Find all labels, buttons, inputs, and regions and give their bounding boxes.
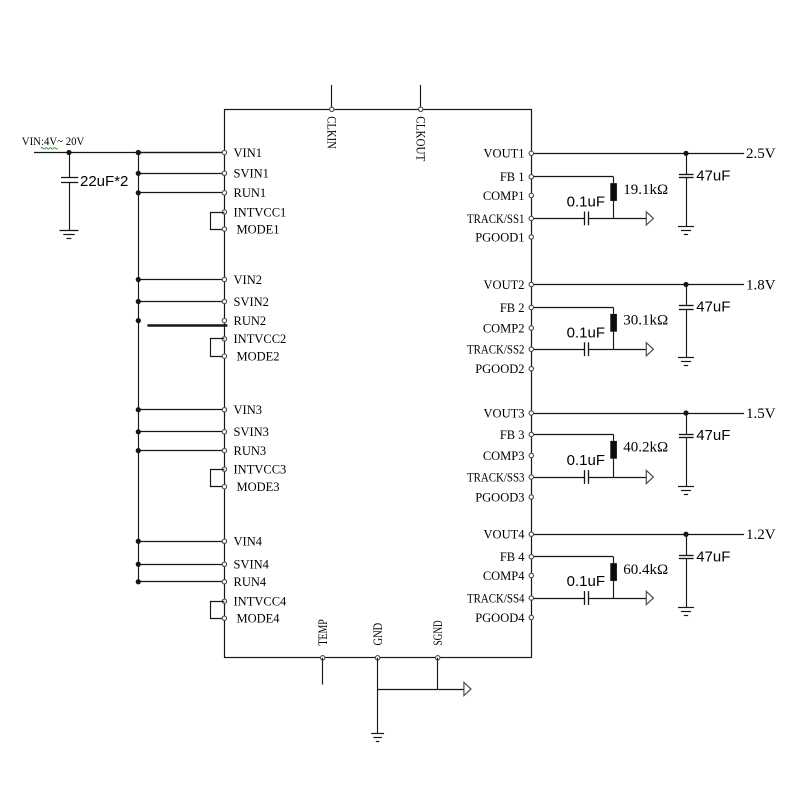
svg-text:PGOOD3: PGOOD3 [475,490,524,504]
svg-text:INTVCC1: INTVCC1 [234,205,287,219]
svg-text:47uF: 47uF [696,168,730,185]
svg-text:INTVCC2: INTVCC2 [234,332,287,346]
svg-text:SVIN1: SVIN1 [234,167,269,181]
svg-text:1.2V: 1.2V [746,527,776,543]
svg-text:47uF: 47uF [696,548,730,565]
svg-text:MODE2: MODE2 [237,350,280,364]
svg-text:VIN4: VIN4 [234,535,263,549]
svg-text:TEMP: TEMP [316,619,330,645]
svg-text:60.4kΩ: 60.4kΩ [623,562,668,578]
svg-text:22uF*2: 22uF*2 [80,173,128,190]
svg-text:SVIN4: SVIN4 [234,558,270,572]
svg-text:0.1uF: 0.1uF [567,193,605,210]
svg-text:COMP4: COMP4 [483,569,525,583]
svg-text:1.5V: 1.5V [746,406,776,422]
svg-text:MODE4: MODE4 [237,612,281,626]
svg-text:GND: GND [371,623,385,646]
svg-text:CLKOUT: CLKOUT [414,116,428,161]
svg-text:VOUT1: VOUT1 [484,147,525,161]
svg-text:0.1uF: 0.1uF [567,452,605,469]
svg-text:SVIN2: SVIN2 [234,295,269,309]
svg-text:1.8V: 1.8V [746,277,776,293]
svg-text:VOUT2: VOUT2 [484,278,525,292]
svg-text:19.1kΩ: 19.1kΩ [623,182,668,198]
svg-text:CLKIN: CLKIN [325,116,339,149]
svg-text:VIN1: VIN1 [234,146,262,160]
svg-text:SVIN3: SVIN3 [234,425,269,439]
svg-text:FB 3: FB 3 [500,428,525,442]
svg-text:TRACK/SS3: TRACK/SS3 [467,470,525,484]
svg-text:PGOOD1: PGOOD1 [475,230,524,244]
svg-text:INTVCC4: INTVCC4 [234,595,288,609]
svg-text:0.1uF: 0.1uF [567,324,605,341]
svg-text:MODE1: MODE1 [237,223,280,237]
svg-text:RUN1: RUN1 [234,186,267,200]
svg-text:TRACK/SS1: TRACK/SS1 [467,212,525,226]
svg-text:FB 2: FB 2 [500,301,525,315]
svg-text:PGOOD2: PGOOD2 [475,362,524,376]
svg-text:VIN:4V~ 20V: VIN:4V~ 20V [22,134,85,148]
svg-text:TRACK/SS2: TRACK/SS2 [467,343,525,357]
svg-text:RUN3: RUN3 [234,444,267,458]
svg-text:47uF: 47uF [696,299,730,316]
svg-text:SGND: SGND [431,620,445,645]
svg-text:PGOOD4: PGOOD4 [475,611,525,625]
svg-text:2.5V: 2.5V [746,146,776,162]
svg-text:RUN2: RUN2 [234,314,267,328]
svg-text:FB 4: FB 4 [500,550,525,564]
svg-text:VIN2: VIN2 [234,273,262,287]
svg-text:MODE3: MODE3 [237,480,280,494]
svg-text:INTVCC3: INTVCC3 [234,463,287,477]
svg-text:VOUT4: VOUT4 [484,528,526,542]
svg-text:VOUT3: VOUT3 [484,406,525,420]
svg-text:40.2kΩ: 40.2kΩ [623,440,668,456]
svg-text:TRACK/SS4: TRACK/SS4 [467,591,525,605]
svg-text:RUN4: RUN4 [234,575,267,589]
svg-text:COMP1: COMP1 [483,189,525,203]
svg-text:FB 1: FB 1 [500,170,525,184]
svg-text:VIN3: VIN3 [234,403,262,417]
svg-text:0.1uF: 0.1uF [567,573,605,590]
svg-text:COMP2: COMP2 [483,321,525,335]
svg-text:COMP3: COMP3 [483,449,525,463]
svg-text:30.1kΩ: 30.1kΩ [623,313,668,329]
svg-text:47uF: 47uF [696,427,730,444]
